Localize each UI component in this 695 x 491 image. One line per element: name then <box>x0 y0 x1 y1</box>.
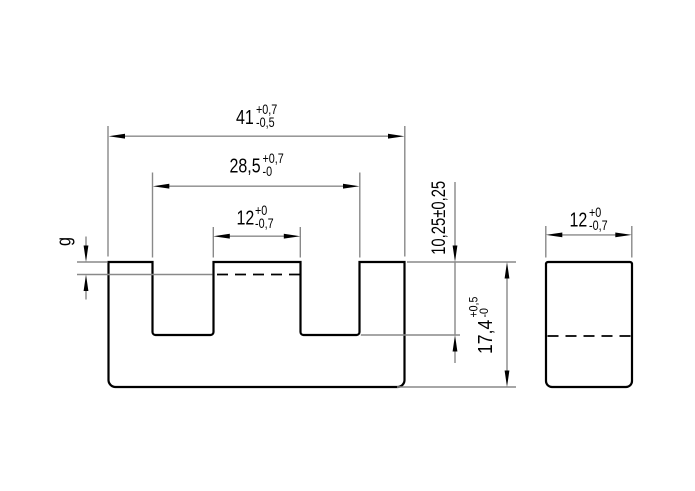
dim 12 front: dimension line <box>227 235 287 237</box>
12 +0/-0,7 (front) <box>237 203 274 231</box>
svg-text:17,4: 17,4 <box>474 320 496 354</box>
dim 12 side: dimension line <box>560 234 618 236</box>
air-gap hidden line on centre leg <box>217 274 300 276</box>
svg-text:g: g <box>53 237 75 246</box>
g dimension line (two tails) <box>85 237 87 250</box>
side view outline <box>546 262 632 387</box>
10.25 dimension line <box>454 182 456 246</box>
12 front arrows <box>213 234 230 239</box>
28,5 +0,7/-0 <box>230 151 284 179</box>
dim 12 side: extension lines <box>545 226 547 258</box>
41 +0,7/-0,5 <box>236 102 277 130</box>
dim 41: dimension line <box>122 135 391 137</box>
dim 28.5: extension lines <box>152 173 154 258</box>
dim 41: extension lines <box>107 126 109 257</box>
svg-text:-0: -0 <box>478 308 491 317</box>
side view hidden line <box>548 335 631 337</box>
17,4 +0,5/-0 (rotated) <box>468 297 496 354</box>
g reference lines <box>77 261 107 263</box>
svg-text:12: 12 <box>237 207 255 229</box>
svg-text:28,5: 28,5 <box>230 155 261 177</box>
17.4 extension line <box>397 386 516 388</box>
17.4 arrows (inside) <box>505 262 510 279</box>
10.25 arrows (outside) <box>453 246 458 263</box>
28.5 arrows <box>153 184 170 189</box>
svg-text:-0,5: -0,5 <box>256 115 275 130</box>
svg-text:-0,7: -0,7 <box>589 218 608 233</box>
dim 28.5: dimension line <box>166 185 346 187</box>
E-core front view outline <box>109 262 405 387</box>
svg-text:-0: -0 <box>263 164 273 179</box>
41 arrows <box>109 134 126 139</box>
dim 12 front: extension lines <box>212 227 214 258</box>
12 side arrows <box>546 233 563 238</box>
svg-text:12: 12 <box>570 209 588 231</box>
svg-text:10,25±0,25: 10,25±0,25 <box>428 181 449 255</box>
17.4 dimension line <box>506 276 508 373</box>
g arrows <box>84 246 89 263</box>
10.25 extension lines <box>407 261 516 263</box>
12 +0/-0,7 (side) <box>570 205 608 233</box>
svg-text:-0,7: -0,7 <box>255 216 274 231</box>
svg-text:41: 41 <box>236 106 254 128</box>
